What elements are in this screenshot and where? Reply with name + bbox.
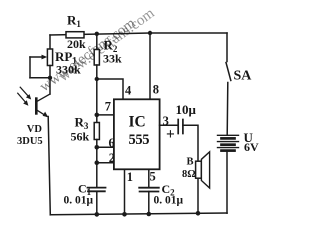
node pin7 junction	[95, 113, 100, 118]
node C1 bottom	[95, 212, 100, 217]
wire top rail	[50, 33, 227, 35]
potentiometer RP1	[30, 49, 81, 94]
wire pin 5	[148, 169, 150, 187]
capacitor C1	[64, 182, 106, 215]
svg-text:IC: IC	[129, 114, 146, 131]
phototransistor VD 3DU5	[17, 87, 50, 147]
wire left vertical lower	[48, 117, 50, 215]
capacitor C2	[139, 182, 183, 214]
node pin6 junction	[95, 145, 100, 150]
svg-text:330k: 330k	[56, 63, 81, 77]
svg-text:1: 1	[127, 170, 133, 184]
wire bottom rail	[50, 213, 227, 215]
svg-text:+: +	[166, 126, 175, 143]
wire pin 6	[97, 146, 114, 148]
svg-text:10μ: 10μ	[176, 102, 197, 117]
svg-text:555: 555	[129, 132, 150, 148]
resistor R2	[94, 34, 122, 66]
wire pin 2	[97, 162, 114, 164]
watermark	[37, 5, 158, 95]
node pin1 bottom	[122, 212, 127, 217]
svg-text:8Ω: 8Ω	[182, 169, 196, 180]
battery U 6V	[218, 130, 260, 213]
capacitor C3 10u electrolytic	[166, 102, 197, 143]
node top of R2	[95, 32, 99, 36]
RP1 wiper arm	[30, 56, 44, 58]
svg-text:33k: 33k	[103, 52, 122, 66]
svg-text:56k: 56k	[71, 130, 90, 144]
switch SA	[226, 33, 252, 135]
node pin8 top	[148, 31, 152, 35]
wire pin 4 branch	[97, 79, 123, 99]
node: RP1 wiper junction	[48, 76, 52, 80]
wire cap to speaker	[183, 125, 198, 160]
svg-text:0. 01μ: 0. 01μ	[154, 194, 184, 206]
svg-text:2: 2	[109, 151, 115, 165]
wire middle vertical (R2 bottom to R3 top)	[96, 65, 98, 123]
node pin2 junction	[95, 160, 100, 165]
svg-text:0. 01μ: 0. 01μ	[64, 195, 94, 207]
light arrows	[20, 87, 29, 97]
wire pin 8	[149, 33, 151, 99]
svg-text:B: B	[187, 157, 194, 168]
op-amp/timer IC U1 555	[105, 83, 169, 184]
svg-text:3DU5: 3DU5	[17, 136, 43, 147]
svg-text:8: 8	[153, 83, 159, 97]
wire pin 1	[124, 169, 126, 214]
wire R3 bottom to C1	[96, 140, 98, 188]
svg-text:6V: 6V	[244, 140, 259, 154]
resistor R1	[66, 13, 86, 52]
wire left vertical upper	[49, 35, 51, 49]
node speaker bottom	[196, 211, 201, 216]
wire pin 3	[160, 124, 178, 126]
svg-text:SA: SA	[234, 69, 253, 84]
svg-text:VD: VD	[27, 124, 43, 135]
svg-text:6: 6	[109, 136, 115, 150]
speaker B	[182, 152, 210, 214]
wire pin 7	[97, 114, 114, 116]
svg-text:4: 4	[125, 84, 132, 98]
svg-text:R1: R1	[67, 13, 81, 30]
node C2 bottom	[147, 212, 152, 217]
svg-text:5: 5	[150, 169, 156, 183]
resistor R3	[71, 115, 100, 144]
svg-text:7: 7	[105, 99, 111, 113]
node pin4 branch	[95, 77, 99, 81]
